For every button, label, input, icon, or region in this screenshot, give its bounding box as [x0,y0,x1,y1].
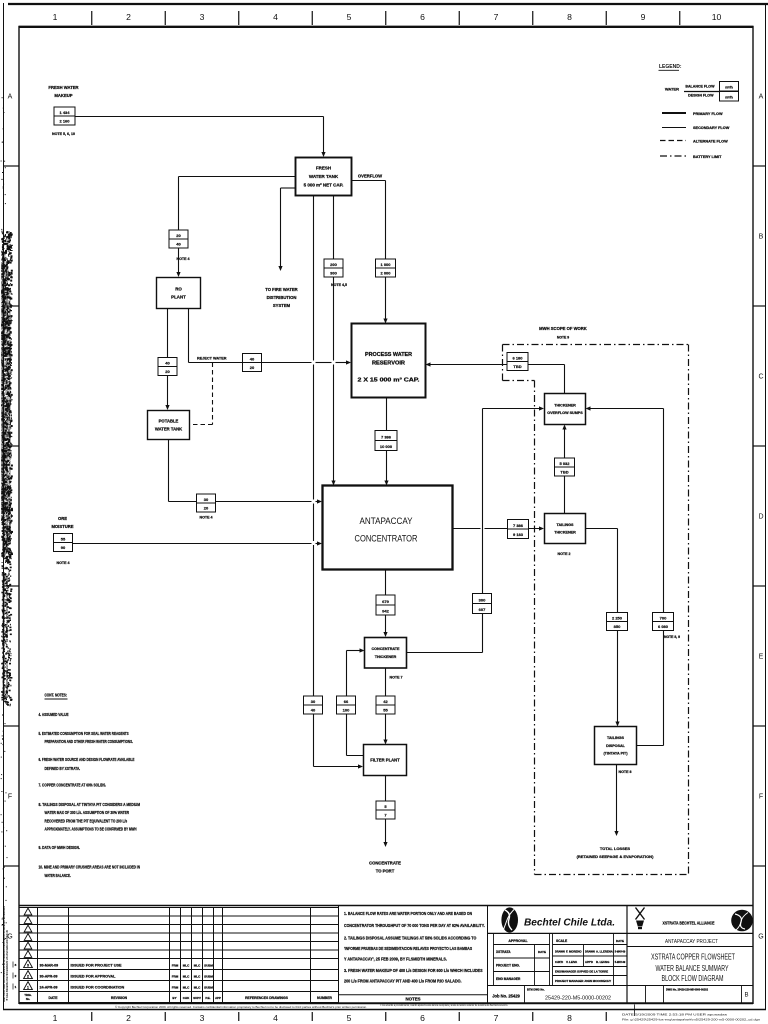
svg-text:679: 679 [382,599,389,604]
wire concentrator to concentrate thickener [383,570,387,638]
box tailings disposal tintaya pit [595,727,637,765]
svg-text:3: 3 [27,964,29,968]
wire filter plant filtrate to concentrate thickener [347,648,365,755]
svg-text:40: 40 [176,241,181,246]
svg-text:1. BALANCE FLOW RATES ARE WATE: 1. BALANCE FLOW RATES ARE WATER PORTION … [344,911,472,916]
svg-text:300: 300 [330,270,337,275]
svg-text:2. TAILINGS DISPOSAL ASSUME TA: 2. TAILINGS DISPOSAL ASSUME TAILINGS AT … [344,936,477,941]
svg-text:File: g:\25429\25429-los-en: File: g:\25429\25429-los-eng\antapa\wrk\… [622,1018,761,1022]
svg-text:DRAWN: DRAWN [585,949,595,953]
svg-text:7: 7 [494,12,499,22]
svg-text:TOTAL LOSSES: TOTAL LOSSES [600,846,631,851]
left margin row letters A-G [7,94,12,941]
top ruler ticks [92,11,680,25]
svg-text:NOTE 4: NOTE 4 [200,516,213,520]
Bechtel Chile Ltda logo and name [488,907,628,933]
svg-text:10: 10 [712,12,722,22]
svg-text:ENG MANAGER: ENG MANAGER [496,977,521,981]
svg-text:A. LLERENA: A. LLERENA [596,949,613,953]
svg-text:F. MORENO: F. MORENO [566,949,582,953]
svg-text:DESIGN FLOW: DESIGN FLOW [688,94,714,98]
svg-text:SCALE: SCALE [556,939,568,943]
note 4 label potable line [200,516,213,520]
title block notes box [339,906,488,1004]
svg-text:7 386: 7 386 [381,434,392,439]
svg-text:R. LEUNG: R. LEUNG [596,960,609,964]
flow tag 5 032 / TBD [555,458,575,476]
antapaccay project row [627,939,753,947]
label to fire water distribution system [265,287,297,308]
flow tag 55/90 ore moisture [54,534,73,552]
svg-text:2: 2 [126,1013,131,1023]
svg-text:V. LEIVA: V. LEIVA [566,960,577,964]
svg-text:SUBM: SUBM [204,964,213,968]
flow tag 700 / 6 080 [653,613,674,631]
svg-text:E: E [759,654,764,661]
svg-text:Job No. 25429: Job No. 25429 [492,994,520,999]
svg-text:20: 20 [176,233,181,238]
wire concentrator to tailings thickener [453,526,545,530]
svg-text:DATE: DATE [616,939,624,943]
svg-text:FINES RESERVADOS PROCEDIMIENTO: FINES RESERVADOS PROCEDIMIENTO LOS INFOR… [0,261,4,520]
legend secondary flow [662,126,730,130]
legend primary flow [662,112,723,116]
top ruler column numbers 1-10 [53,12,722,22]
svg-text:© Copyright Bechtel Corporatio: © Copyright Bechtel Corporation 2009. Al… [115,1005,367,1009]
xstrata bechtel alliance header [627,906,753,1003]
legend alternate flow [660,139,728,143]
battery limit MWH scope of work dash-dot boundary [503,345,689,875]
bottom ruler ticks [92,1012,607,1021]
svg-text:CONCENTRATOR THROUGHPUT OF 70: CONCENTRATOR THROUGHPUT OF 70 000 TONS P… [344,923,485,928]
legend water balance/design flow tags [665,82,739,102]
svg-text:BTM DWG No.: BTM DWG No. [527,987,545,991]
svg-text:PLANT: PLANT [171,295,186,300]
svg-text:6. FRESH WATER SOURCE AND DESI: 6. FRESH WATER SOURCE AND DESIGN FLOWRAT… [39,757,135,762]
revision row issued for approval [24,971,214,979]
svg-text:'INFORME PRUEBAS DE SEDIMENTAC: 'INFORME PRUEBAS DE SEDIMENTACION RELAVE… [344,946,472,951]
wire RO plant to potable water tank [165,309,169,411]
svg-text:850: 850 [614,624,621,629]
plot footer info [622,1005,761,1022]
svg-text:3: 3 [200,1013,205,1023]
svg-text:DWG No. 25429-220-M5-0000-0020: DWG No. 25429-220-M5-0000-00202 [666,988,709,991]
svg-text:6 180: 6 180 [512,355,523,360]
svg-text:D: D [758,514,763,521]
svg-text:20: 20 [250,365,255,370]
margin row boundary ticks [4,166,766,866]
wire potable tank to concentrator [169,440,323,504]
svg-text:2: 2 [27,975,29,979]
svg-text:3: 3 [200,12,205,22]
svg-text:1 000: 1 000 [380,262,391,267]
svg-text:30-MAR-09: 30-MAR-09 [40,964,59,968]
note 4,5 label [331,283,347,287]
job number and drawing number row [488,986,754,1003]
svg-text:XSTRATA: XSTRATA [496,950,511,954]
svg-text:607: 607 [479,607,486,612]
svg-text:24-APR-09: 24-APR-09 [40,986,58,990]
wire concentrate thickener to filter plant [383,668,387,745]
svg-text:OVERFLOW: OVERFLOW [358,174,382,179]
note 8 label [619,770,632,774]
approval sub-table [494,933,553,985]
svg-text:THICKENER: THICKENER [554,403,576,407]
flow tag 7 386 / 10 000 [375,431,397,451]
svg-text:NOTE 8, 9: NOTE 8, 9 [664,635,680,639]
svg-text:NOTE 8: NOTE 8 [619,770,632,774]
wire filter plant to concentrate port [383,776,387,848]
svg-text:MLC: MLC [183,975,190,979]
svg-text:APP'D: APP'D [585,960,593,964]
svg-text:MLC: MLC [183,986,190,990]
flow tag 40/20 reject water [243,354,262,372]
flow tag 2 250 / 850 [607,613,628,631]
svg-text:RECOVERED FROM THE PIT EQUIVAL: RECOVERED FROM THE PIT EQUIVALENT TO 200… [45,819,128,824]
svg-text:300: 300 [479,597,486,602]
svg-text:APP: APP [215,996,221,1000]
svg-text:100: 100 [343,707,350,712]
wire concentrate thickener overflow up to sumps [407,406,545,652]
legend battery limit [660,155,722,159]
svg-text:WATER MAX OF 300 L/s. ASSUMPTI: WATER MAX OF 300 L/s. ASSUMPTION OF 30% … [45,810,130,815]
svg-text:DISTRIBUTION: DISTRIBUTION [267,295,297,300]
xstrata bottom row [646,986,749,1003]
flow tag 5/7 [376,801,395,819]
svg-text:CHK'D: CHK'D [555,960,563,964]
svg-text:TBD: TBD [513,364,521,369]
svg-text:66: 66 [344,699,349,704]
svg-text:25429-220-M5-0000-00202: 25429-220-M5-0000-00202 [545,996,611,1002]
svg-text:942: 942 [382,608,389,613]
svg-text:NUMBER: NUMBER [317,996,332,1000]
continuation notes block [39,693,141,879]
svg-text:REVISION: REVISION [111,996,128,1000]
flow tag 6 180 / TBD on sumps-reservoir wire [507,353,528,371]
svg-text:ENG/MANAGER SUPVED DE LA TOR: ENG/MANAGER SUPVED DE LA TORRE [555,969,608,973]
drawn/checked sub-table [553,933,628,985]
svg-text:P.E.: P.E. [205,996,210,1000]
svg-text:MLC: MLC [183,964,190,968]
svg-text:TO FIRE WATER: TO FIRE WATER [265,287,297,292]
flow tag 66/100 [337,696,356,714]
svg-text:PROCESS WATER: PROCESS WATER [365,352,412,358]
note 2 label [558,552,571,556]
wire tailings thickener overflow up to sumps [562,425,566,514]
svg-text:MWH SCOPE OF WORK: MWH SCOPE OF WORK [539,326,587,331]
svg-text:5 000 m³ NET CAP.: 5 000 m³ NET CAP. [304,183,344,188]
svg-text:WATER BALANCE.: WATER BALANCE. [45,873,71,878]
box RO plant [157,278,201,309]
svg-text:FILTER PLANT: FILTER PLANT [370,757,400,762]
svg-text:REFERENCES DRAWINGS: REFERENCES DRAWINGS [245,996,289,1000]
svg-text:NOTE 4,5: NOTE 4,5 [331,283,347,287]
svg-text:BY: BY [172,996,176,1000]
svg-text:NOTES: NOTES [405,997,420,1002]
box process water reservoir [352,324,426,398]
box potable water tank [148,411,190,440]
svg-text:C: C [758,374,763,381]
spanish procedure note [380,1003,508,1007]
svg-text:SUBM: SUBM [204,986,213,990]
svg-text:2: 2 [126,12,131,22]
revision table grid [19,908,339,1003]
label overflow [358,174,382,179]
svg-text:SYSTEM: SYSTEM [273,303,291,308]
svg-text:Y CHILE PRESENTE LTDA PROCEDIM: Y CHILE PRESENTE LTDA PROCEDIMIENTO LOS … [5,930,9,1000]
svg-text:DRAWN: DRAWN [555,949,565,953]
flow tag 20/40 on tank-RO wire [169,230,188,248]
svg-text:F: F [759,794,763,801]
box thickener overflow sumps [545,394,586,425]
svg-text:m³/h: m³/h [725,86,733,90]
right margin row letters A-G [758,94,763,941]
wire reservoir to concentrator [384,398,388,486]
svg-text:2 160: 2 160 [59,118,70,123]
flow tag 7 386 / 9 183 [508,520,529,539]
flow tag 30/20 potable line [197,494,216,512]
svg-text:90: 90 [61,545,66,550]
svg-text:200: 200 [330,262,337,267]
svg-text:XSTRATA BECHTEL ALLIANCE: XSTRATA BECHTEL ALLIANCE [663,921,715,926]
svg-text:MAKEUP: MAKEUP [54,93,72,98]
flow tag 1 000 / 2 000 on overflow [376,259,396,277]
svg-text:B: B [744,993,748,999]
svg-text:40: 40 [165,360,170,365]
svg-text:THICKENER: THICKENER [375,655,397,659]
svg-text:20: 20 [165,369,170,374]
svg-text:ISSUED FOR APPROVAL: ISSUED FOR APPROVAL [71,975,117,979]
svg-text:CONCENTRATOR: CONCENTRATOR [355,534,418,545]
svg-text:20: 20 [204,505,209,510]
wire tank to fire water distribution [278,188,295,271]
note 8,9 label [664,635,680,639]
svg-text:PRIMARY FLOW: PRIMARY FLOW [693,112,723,116]
svg-text:RESERVOIR: RESERVOIR [372,361,405,367]
svg-text:MLC: MLC [194,964,201,968]
svg-text:5 032: 5 032 [559,461,570,466]
svg-text:5. ESTIMATED CONSUMPTION FOR S: 5. ESTIMATED CONSUMPTION FOR SEAL WATER … [39,731,129,736]
svg-text:CONCENTRATE: CONCENTRATE [372,647,401,651]
label FRESH WATER MAKEUP [48,85,78,98]
svg-text:8: 8 [567,1013,572,1023]
svg-text:TAILINGS: TAILINGS [557,523,574,527]
wire tintaya pit water recovery to sumps [586,406,664,745]
svg-text:(RETAINED SEEPAGE & EVAPORATIO: (RETAINED SEEPAGE & EVAPORATION) [577,854,654,859]
flow tag 300/607 on overflow return [473,594,492,614]
svg-text:10. MINE AND PRIMARY CRUSHER A: 10. MINE AND PRIMARY CRUSHER AREAS ARE N… [39,865,141,870]
svg-text:DISPOSAL: DISPOSAL [606,744,626,748]
svg-text:WATER TANK: WATER TANK [309,174,339,179]
svg-text:PREPARATION AND OTHER FRESH WA: PREPARATION AND OTHER FRESH WATER CONSUM… [45,739,133,744]
svg-text:A: A [759,94,764,101]
flow tag 679/942 [376,595,395,615]
box filter plant [364,745,407,776]
dashed alternate wire reject to potable tank [190,363,213,425]
svg-text:SUBM: SUBM [204,975,213,979]
svg-text:4: 4 [273,1013,278,1023]
svg-text:1: 1 [53,12,58,22]
svg-text:FRM: FRM [172,975,179,979]
svg-text:OVERFLOW SUMPS: OVERFLOW SUMPS [547,411,583,415]
svg-text:5: 5 [347,12,352,22]
svg-text:TO PORT: TO PORT [376,869,395,874]
label ore moisture [51,516,73,529]
svg-text:APPROXIMATELY. ASSUMPTIONS TO: APPROXIMATELY. ASSUMPTIONS TO BE CONFIRM… [45,827,137,832]
svg-text:BLOCK FLOW DIAGRAM: BLOCK FLOW DIAGRAM [662,973,724,983]
legend title [659,64,682,70]
svg-text:G: G [758,934,763,941]
svg-text:A: A [8,94,13,101]
box concentrate thickener [365,638,407,669]
svg-text:4: 4 [273,12,278,22]
svg-text:B: B [759,234,764,241]
svg-text:8. TAILINGS DISPOSAL AT TINTAY: 8. TAILINGS DISPOSAL AT TINTAYA PIT CONS… [39,802,141,807]
svg-text:WATER TANK: WATER TANK [155,426,182,431]
flow tag 30/40 on filter feed branch [304,696,323,714]
svg-text:FRESH WATER: FRESH WATER [48,85,78,90]
svg-text:RO: RO [175,286,182,291]
svg-text:REJECT WATER: REJECT WATER [197,357,227,361]
revision table header row [24,993,332,1001]
svg-text:55: 55 [61,536,66,541]
wire fresh water tank to RO plant [176,177,295,278]
svg-text:NOTE 9: NOTE 9 [557,336,569,340]
svg-text:FRESH: FRESH [316,165,331,170]
svg-text:Y ANTAPACCAY', 25 FEB 2009, BY: Y ANTAPACCAY', 25 FEB 2009, BY FLSMIDTH … [344,957,447,962]
svg-text:2 250: 2 250 [612,615,623,620]
svg-text:4. ASSUMED VALUE: 4. ASSUMED VALUE [39,712,69,717]
title block outer boundary [19,906,753,1004]
revision row issued for coordination [24,982,214,990]
svg-text:MLC: MLC [194,975,201,979]
svg-text:700: 700 [660,615,667,620]
svg-text:NOTE 4: NOTE 4 [177,257,190,261]
svg-text:DEFINED BY XSTRATA.: DEFINED BY XSTRATA. [45,766,81,771]
svg-text:TBD: TBD [560,469,568,474]
svg-text:WATER: WATER [665,87,679,92]
svg-text:NOTE 2: NOTE 2 [558,552,571,556]
scanner noise strip left edge vertical text bleed [0,97,13,1002]
svg-text:2 X 15 000 m³ CAP.: 2 X 15 000 m³ CAP. [358,378,421,384]
svg-text:SECONDARY FLOW: SECONDARY FLOW [693,126,730,130]
svg-text:BALANCE FLOW: BALANCE FLOW [685,85,715,89]
bottom ruler column numbers 1-8 [53,1013,573,1023]
wire ore moisture to concentrator [73,541,323,545]
svg-text:7 386: 7 386 [513,523,524,528]
box Antapaccay concentrator [323,486,453,570]
svg-text:CHK: CHK [183,996,190,1000]
svg-text:POTABLE: POTABLE [159,418,179,423]
wire makeup to fresh water tank [75,117,326,158]
flow tag 40/20 RO to potable [158,358,177,376]
svg-text:5: 5 [347,1013,352,1023]
svg-text:ANTAPACCAY: ANTAPACCAY [360,516,414,527]
svg-text:LEGEND:: LEGEND: [659,64,682,70]
svg-text:THICKENER: THICKENER [554,531,576,535]
svg-text:ALTERNATE FLOW: ALTERNATE FLOW [693,139,728,143]
svg-text:DATE 5/19/2009: DATE 5/19/2009 TIME 2:53:18 PM USER apos… [622,1013,728,1017]
svg-text:NOTE 4: NOTE 4 [57,561,70,565]
svg-text:55: 55 [383,707,388,712]
label reject water [197,357,227,361]
note 5,6,10 label [52,132,75,136]
svg-text:3. FRESH WATER MAKEUP OF 400 L: 3. FRESH WATER MAKEUP OF 400 L/s DESIGN … [344,968,483,973]
svg-text:ISSUED FOR PROJECT USE: ISSUED FOR PROJECT USE [71,964,123,968]
svg-text:© De acuerdo a procedimiento,: © De acuerdo a procedimiento, cuando apa… [380,1003,508,1007]
svg-text:5-MAY-09: 5-MAY-09 [615,950,626,953]
svg-text:9. DATA OF MWH DESIGN.: 9. DATA OF MWH DESIGN. [39,845,80,850]
svg-text:DATE: DATE [538,950,546,954]
svg-text:ISSUED FOR COORDINATION: ISSUED FOR COORDINATION [71,986,125,990]
svg-text:40: 40 [311,707,316,712]
svg-text:MOISTURE: MOISTURE [51,524,73,529]
svg-text:PROJECT MANAGER JOHN MCCONEC: PROJECT MANAGER JOHN MCCONECHY [555,979,611,983]
svg-text:ORE: ORE [58,516,67,521]
svg-text:CONT. NOTES:: CONT. NOTES: [45,693,68,698]
svg-text:Bechtel Chile Ltda.: Bechtel Chile Ltda. [524,917,615,928]
note 4 label ore moisture [57,561,70,565]
note 7 label [390,676,403,680]
wire tank overflow to process water reservoir [352,181,388,324]
svg-text:F: F [8,794,12,801]
svg-text:NOTE 5, 6, 10: NOTE 5, 6, 10 [52,132,75,136]
svg-text:BATTERY LIMIT: BATTERY LIMIT [693,155,722,159]
svg-text:XSTRATA COPPER FLOWSHEET: XSTRATA COPPER FLOWSHEET [651,952,735,962]
svg-text:2 000: 2 000 [380,270,391,275]
label MWH scope of work [539,326,587,340]
box tailings thickener [545,514,586,544]
revision numbers left margin marks [13,962,17,990]
svg-text:9: 9 [641,12,646,22]
svg-text:ANTAPACCAY PROJECT: ANTAPACCAY PROJECT [665,939,718,945]
svg-text:10 000: 10 000 [380,444,393,449]
svg-text:8: 8 [567,12,572,22]
svg-text:CONCENTRATE: CONCENTRATE [369,861,401,866]
flow tag fresh water makeup 1 434 / 2 160 [54,107,75,125]
svg-text:6 080: 6 080 [658,624,669,629]
svg-text:PROJECT ENG.: PROJECT ENG. [496,964,520,968]
wire tailings thickener to tailings disposal [586,529,620,727]
svg-text:TAILINGS: TAILINGS [607,736,624,740]
svg-text:6: 6 [420,1013,425,1023]
drawing title [651,952,735,984]
copyright line [115,1005,367,1009]
svg-text:30: 30 [204,497,209,502]
wire tank bottom long branch to filter plant [314,196,364,769]
svg-text:(TINTAYA PIT): (TINTAYA PIT) [603,752,628,756]
svg-text:5-MAY-09: 5-MAY-09 [615,961,626,964]
note 4 label below tag [177,257,190,261]
label concentrate to port [369,861,401,874]
svg-text:1 434: 1 434 [59,110,70,115]
flow tag 42/55 [376,696,395,714]
svg-text:42: 42 [383,699,388,704]
wire tank bottom to concentrator [331,196,335,486]
svg-text:FRM: FRM [172,964,179,968]
wire thickener overflow sumps to reservoir [426,362,565,393]
svg-text:9 183: 9 183 [513,532,524,537]
svg-text:40: 40 [250,356,255,361]
wire RO reject water to reservoir [189,309,352,365]
svg-text:MLC: MLC [194,986,201,990]
svg-text:30: 30 [311,699,316,704]
svg-text:30-APR-09: 30-APR-09 [40,975,58,979]
revision row issued for project use [24,960,214,968]
revision triangles empty rows [24,908,32,957]
label total losses [577,846,654,859]
svg-text:FRM: FRM [172,986,179,990]
